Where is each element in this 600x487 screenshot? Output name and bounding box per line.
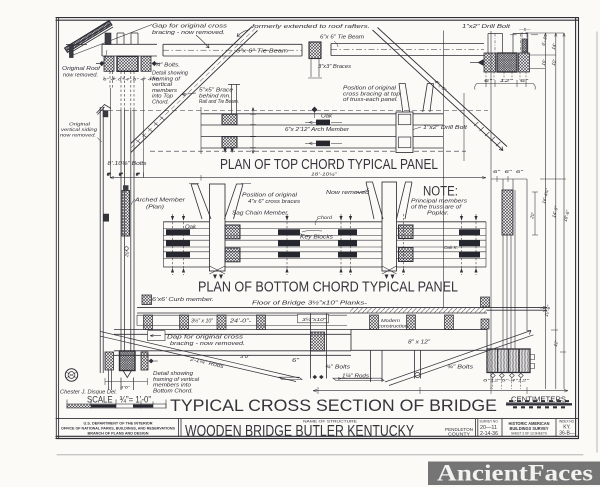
svg-text:vertical siding: vertical siding xyxy=(61,127,97,133)
key bars group 1 xyxy=(166,229,190,235)
rail tick marks xyxy=(110,173,144,177)
svg-text:Modern: Modern xyxy=(381,318,400,324)
tie rods right pair with arrowhead xyxy=(385,331,534,386)
svg-text:AncientFaces: AncientFaces xyxy=(437,461,593,486)
curly ends xyxy=(475,84,536,90)
svg-text:10’-6”: 10’-6” xyxy=(544,304,552,317)
bottom chord outer lines xyxy=(163,222,486,267)
left truss diagonal (double line) xyxy=(131,27,258,153)
bolt arrow left of blocks xyxy=(478,59,484,66)
bolt centerlines with arrows through chord xyxy=(173,214,477,275)
svg-text:now removed.: now removed. xyxy=(60,133,96,139)
drill bolt leader (top chord) xyxy=(413,127,421,130)
svg-text:Arched Member: Arched Member xyxy=(134,198,187,204)
black square on wall xyxy=(104,214,109,221)
arched member leader xyxy=(131,199,136,207)
posts below lower blocks xyxy=(109,370,134,390)
tiny dimension ticks under blocks xyxy=(104,77,151,81)
roof rafter detail (hatched strip) top-left xyxy=(65,21,113,53)
svg-text:8” x 12”: 8” x 12” xyxy=(408,339,431,345)
label box 3.5x10 right section xyxy=(298,314,329,323)
right tie beam centerline xyxy=(331,49,484,51)
svg-text:SHEET 3 OF 13 SHEETS: SHEET 3 OF 13 SHEETS xyxy=(511,431,548,435)
five inch dim mark xyxy=(510,32,538,38)
svg-text:Rail and Tie Beam.: Rail and Tie Beam. xyxy=(199,99,239,105)
svg-text:3”x3” Braces: 3”x3” Braces xyxy=(318,64,351,70)
svg-text:Position of original: Position of original xyxy=(242,193,298,199)
svg-text:PLAN OF BOTTOM CHORD TYPICAL P: PLAN OF BOTTOM CHORD TYPICAL PANEL xyxy=(198,279,458,296)
splayed V braces above post xyxy=(399,84,434,113)
left truss diagonal centerline xyxy=(131,29,255,149)
wood post block in beam gap xyxy=(309,42,321,59)
svg-text:Sag Chain Member.: Sag Chain Member. xyxy=(232,210,289,216)
right truss diagonal 4x6 (double line) xyxy=(373,28,508,151)
arrowheads on dim lines xyxy=(544,33,565,37)
left post hatched squares xyxy=(225,225,240,239)
svg-text:Floor of Bridge 3½”x10” Planks: Floor of Bridge 3½”x10” Planks- xyxy=(252,299,367,306)
rod end plate center xyxy=(333,378,384,380)
key bars group 4 xyxy=(459,229,480,235)
svg-text:6” 4”.6” 4”.6” 4” 4Ⅿ”: 6” 4”.6” 4”.6” 4” 4Ⅿ” xyxy=(103,78,160,82)
svg-text:10’: 10’ xyxy=(551,58,558,66)
center post bottom X xyxy=(382,266,397,274)
svg-text:6”x 6” Tie Beam: 6”x 6” Tie Beam xyxy=(236,49,288,55)
small dim row above tall member xyxy=(491,176,527,182)
svg-text:Oak: Oak xyxy=(321,114,333,120)
svg-text:Dap for original cross: Dap for original cross xyxy=(167,334,243,340)
svg-text:Bottom Chord.: Bottom Chord. xyxy=(153,388,193,394)
top-left vertical posts above tie beam xyxy=(105,33,111,45)
svg-text:Now removed: Now removed xyxy=(326,190,370,196)
down arrows under left blocks xyxy=(224,149,234,154)
rafter post (dark) xyxy=(70,45,74,58)
short pair verticals top right assembly xyxy=(488,34,528,55)
centimeter ruler xyxy=(506,403,572,405)
bottom chord end caps xyxy=(163,222,486,267)
floor joists hanging below xyxy=(144,315,153,330)
svg-text:16’: 16’ xyxy=(541,58,548,66)
dap callout box xyxy=(148,331,166,341)
joint blocks row below beam (left cluster) xyxy=(104,56,114,71)
lines continuing below tall member xyxy=(503,190,515,349)
dim line under lower blocks xyxy=(105,381,148,383)
svg-text:bracing - now removed.: bracing - now removed. xyxy=(170,341,245,347)
top chord left end cap xyxy=(200,107,202,154)
hatched block inside chord band xyxy=(311,332,325,351)
architect seal circle xyxy=(65,369,77,381)
svg-text:8’.10⅛” Bolts: 8’.10⅛” Bolts xyxy=(108,161,148,167)
post inner squares xyxy=(398,114,411,125)
bolt diamond right of blocks xyxy=(149,359,154,364)
title block divider lines xyxy=(179,419,557,437)
brace line below gap block xyxy=(308,59,322,79)
bolt diamonds at its bottom xyxy=(313,375,324,379)
pointed bottom under center block xyxy=(123,371,132,378)
svg-text:Gap for original cross: Gap for original cross xyxy=(152,24,227,30)
dim extension line x464 xyxy=(463,93,465,161)
tie beam middle segment xyxy=(163,44,302,56)
floor plank hatched band xyxy=(350,308,487,312)
bolt diamonds left/right of blocks xyxy=(99,61,157,66)
floor deck lines xyxy=(137,308,547,313)
svg-text:4”x 6” cross braces: 4”x 6” cross braces xyxy=(248,199,300,205)
curb blocks right end xyxy=(481,297,490,307)
bottom chord side view band (left) xyxy=(114,330,351,356)
svg-text:Chester J. Disque Del.: Chester J. Disque Del. xyxy=(60,389,117,395)
dim bracket right of blocks xyxy=(250,108,256,154)
left post V braces xyxy=(191,184,243,219)
posts below blocks (hidden dashed then solid) xyxy=(110,72,113,89)
svg-text:1¼” Rods: 1¼” Rods xyxy=(342,373,369,379)
border right double line xyxy=(576,18,579,439)
thin roof extension line xyxy=(73,25,152,56)
svg-text:¾” Bolts: ¾” Bolts xyxy=(325,364,350,370)
small dark bolt block top xyxy=(522,39,527,52)
border top double line xyxy=(56,18,579,21)
oak bolt anchor on centerline xyxy=(312,107,318,113)
curb member hatched square xyxy=(142,295,152,305)
svg-text:6”x 6” Tie Beam: 6”x 6” Tie Beam xyxy=(320,35,364,41)
svg-text:(Plan): (Plan) xyxy=(146,204,164,210)
svg-text:3’0”: 3’0” xyxy=(240,354,251,359)
right diagonal end arrow xyxy=(499,147,503,151)
bottom chord member lines xyxy=(163,229,486,259)
right post with circle bolt xyxy=(415,350,421,378)
svg-text:2-1¼” Rods: 2-1¼” Rods xyxy=(188,356,224,370)
svg-text:24’-0”-: 24’-0”- xyxy=(229,318,251,324)
hatch ticks on left diagonal xyxy=(136,117,165,144)
svg-text:PLAN OF TOP CHORD TYPICAL PANE: PLAN OF TOP CHORD TYPICAL PANEL xyxy=(220,156,438,173)
svg-text:Original: Original xyxy=(69,122,91,128)
rod end plate left xyxy=(279,377,302,379)
tie beam label leader (right) xyxy=(334,41,338,47)
top chord hatched block upper xyxy=(222,114,237,125)
paper edge line xyxy=(57,454,583,456)
brace label leader xyxy=(182,93,196,96)
centimeters underline xyxy=(506,401,566,403)
dim line under right blocks xyxy=(477,80,533,87)
formerly-extended leader arrow xyxy=(237,30,250,37)
key bar leader arrows xyxy=(305,122,342,143)
svg-text:6’x6’ Curb member.: 6’x6’ Curb member. xyxy=(152,297,214,303)
rafter bracket xyxy=(66,44,87,46)
arched member hatched (plan) xyxy=(122,191,130,237)
left post (plan) bottom chord xyxy=(210,184,226,271)
svg-text:INDEX NO.: INDEX NO. xyxy=(559,420,575,424)
svg-text:2-14-36: 2-14-36 xyxy=(480,431,498,437)
original roof leader xyxy=(101,50,107,66)
svg-text:6”12”6”-4”12”: 6”12”6”-4”12” xyxy=(483,379,530,383)
scan edge right faint xyxy=(596,32,598,452)
bottom chord end block (right, wood grain) xyxy=(487,349,530,373)
svg-text:—5—: —5— xyxy=(518,27,531,32)
svg-text:36-B—: 36-B— xyxy=(559,431,575,437)
top chord vertical post (plan) xyxy=(396,112,413,153)
watermark bar xyxy=(428,462,600,486)
floor nailing strip left xyxy=(137,315,347,325)
mid ticks on dim verticals xyxy=(530,55,566,352)
svg-text:Oak: Oak xyxy=(185,225,197,231)
right assembly blocks row xyxy=(484,53,496,72)
left wall line of shed xyxy=(100,107,103,373)
bottom dimension line xyxy=(313,390,568,392)
horizontal dim line under cluster xyxy=(110,177,486,179)
svg-text:Poplar.: Poplar. xyxy=(427,210,449,216)
main vertical posts (cross-section elevation) xyxy=(121,110,134,351)
border left double line xyxy=(56,18,58,439)
dashed drops from end block xyxy=(493,378,521,389)
long vertical dimension line x491 xyxy=(490,31,492,389)
title block top line xyxy=(56,418,579,420)
svg-text:1”x2” Drill Bolt: 1”x2” Drill Bolt xyxy=(423,125,468,131)
rafter parallel underline xyxy=(69,27,113,54)
svg-text:WOODEN BRIDGE BUTLER KENTUCKY: WOODEN BRIDGE BUTLER KENTUCKY xyxy=(185,423,414,440)
bolts under end block xyxy=(491,373,524,377)
svg-text:3’6”: 3’6” xyxy=(120,386,131,390)
svg-text:COUNTY: COUNTY xyxy=(448,432,470,437)
rods label leader xyxy=(338,377,372,379)
svg-text:6”: 6” xyxy=(292,358,301,364)
svg-text:SCALE · ¾”= 1’-0”: SCALE · ¾”= 1’-0” xyxy=(87,395,151,405)
svg-text:construction: construction xyxy=(378,323,408,329)
gap label leader arrow xyxy=(196,35,209,48)
svg-text:20’: 20’ xyxy=(124,249,130,258)
svg-text:SURVEY NO.: SURVEY NO. xyxy=(480,420,499,424)
left lower joint blocks xyxy=(105,352,114,370)
svg-text:6” 12” 6”: 6” 12” 6” xyxy=(484,78,529,83)
svg-text:14’: 14’ xyxy=(551,42,558,50)
shed roof stub xyxy=(97,105,112,115)
long vertical dimension line x444 xyxy=(443,31,445,309)
key bars group 3 xyxy=(338,229,357,235)
top chord hatched block lower xyxy=(222,137,237,148)
svg-text:8”: 8” xyxy=(119,173,123,177)
top chord key bar lower xyxy=(316,141,330,147)
8x12 beam right xyxy=(351,330,487,351)
dashed drops from blocks xyxy=(486,72,526,80)
top chord centerline dashed lower xyxy=(150,150,466,152)
svg-text:now removed.: now removed. xyxy=(63,73,98,79)
svg-text:bracing - now removed.: bracing - now removed. xyxy=(152,30,225,36)
top chord horizontal members xyxy=(201,114,443,148)
tie beam right segment xyxy=(331,44,484,56)
svg-text:1”x2” Drill Bolt: 1”x2” Drill Bolt xyxy=(462,24,511,30)
svg-text:formerly extended to roof raft: formerly extended to roof rafters. xyxy=(252,24,370,30)
svg-text:of truss-each panel.: of truss-each panel. xyxy=(343,97,398,103)
dim bracket beside tall member xyxy=(532,192,538,235)
svg-text:Chord.: Chord. xyxy=(152,100,169,106)
center post (plan) bottom chord xyxy=(382,182,397,271)
svg-text:14’-6”: 14’-6” xyxy=(551,205,559,218)
now-removed leader xyxy=(355,188,369,192)
svg-text:6’- 6”: 6’- 6” xyxy=(541,34,549,46)
svg-text:4” x 6”: 4” x 6” xyxy=(433,79,448,93)
svg-text:6” 6” 6”: 6” 6” 6” xyxy=(493,169,524,174)
svg-text:Oak K.: Oak K. xyxy=(444,245,458,251)
svg-text:CENTIMETERS: CENTIMETERS xyxy=(511,395,566,404)
svg-text:Key Blocks: Key Blocks xyxy=(300,234,333,240)
vertical member above top chord block xyxy=(228,84,240,114)
svg-text:16’-4¾”: 16’-4¾” xyxy=(541,187,550,204)
svg-text:6”: 6” xyxy=(136,173,140,177)
tie beam left segment xyxy=(102,44,157,56)
svg-text:TYPICAL CROSS SECTION OF BRIDG: TYPICAL CROSS SECTION OF BRIDGE xyxy=(170,396,497,415)
svg-text:¾” Bolts.: ¾” Bolts. xyxy=(155,63,180,69)
svg-text:Chord: Chord xyxy=(317,215,332,221)
chord label curl xyxy=(315,219,318,225)
center-right post xyxy=(371,350,383,382)
title block bottom double line xyxy=(56,436,579,438)
tall hatched arched member right xyxy=(502,190,513,235)
top cap tick xyxy=(525,32,564,34)
scale bar bottom left xyxy=(67,404,166,408)
center-left post of cross-section xyxy=(311,314,327,379)
center post V braces xyxy=(366,182,412,219)
key blocks leader arrows xyxy=(297,230,322,236)
svg-text:Original Roof: Original Roof xyxy=(62,66,102,72)
svg-text:NOTE:: NOTE: xyxy=(423,184,458,199)
svg-text:6”x 2’12” Arch Member: 6”x 2’12” Arch Member xyxy=(285,127,350,133)
left post bottom X xyxy=(210,266,226,274)
svg-text:3½”x10”: 3½”x10” xyxy=(302,316,327,323)
top chord centerline dashed upper xyxy=(100,110,488,112)
top chord key bar upper xyxy=(316,120,330,126)
svg-text:¾” Bolts: ¾” Bolts xyxy=(447,364,473,370)
svg-text:BUILDINGS SURVEY: BUILDINGS SURVEY xyxy=(510,426,549,431)
far right dimension verticals xyxy=(546,33,565,389)
svg-text:BRANCH OF PLANS AND DESIGN: BRANCH OF PLANS AND DESIGN xyxy=(88,430,149,435)
key bars group 2 xyxy=(278,229,300,235)
tie rods left pair xyxy=(101,332,300,382)
svg-text:3½” x 10”: 3½” x 10” xyxy=(191,317,214,324)
tie beam centerline xyxy=(163,49,302,51)
hatch ticks on right diagonal xyxy=(474,122,500,146)
center post hatched squares xyxy=(399,225,414,239)
